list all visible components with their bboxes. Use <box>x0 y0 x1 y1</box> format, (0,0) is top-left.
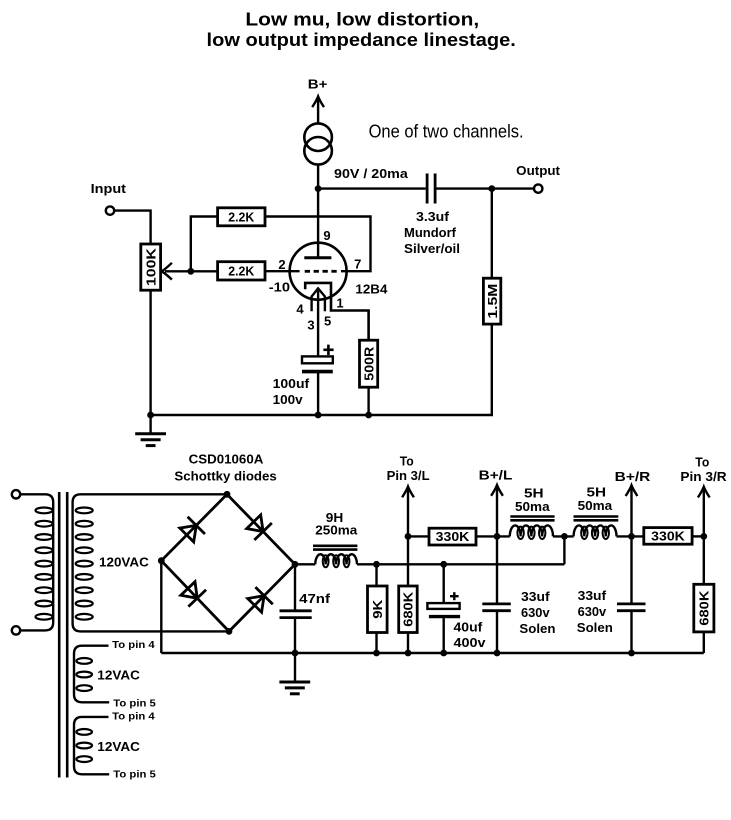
choke L1 9H 250ma <box>315 554 357 564</box>
node wiper junction <box>187 268 194 275</box>
node 9K top <box>373 561 380 568</box>
svg-text:To pin 5: To pin 5 <box>113 698 156 709</box>
svg-text:12VAC: 12VAC <box>97 667 140 682</box>
tube grid (dotted) <box>305 270 337 273</box>
svg-text:2: 2 <box>278 257 285 272</box>
choke L3 5H 50ma <box>574 525 617 536</box>
node Pin3/R <box>700 533 707 540</box>
resistor R5 500R <box>360 340 378 387</box>
node inter-choke <box>561 533 568 540</box>
svg-text:Schottky diodes: Schottky diodes <box>174 468 276 483</box>
terminal Output <box>534 184 542 192</box>
svg-text:CSD01060A: CSD01060A <box>189 451 264 466</box>
svg-text:100v: 100v <box>273 392 304 407</box>
wiper arrow <box>162 263 172 280</box>
ground rail <box>161 652 704 655</box>
svg-text:33uf: 33uf <box>521 589 550 604</box>
tube U1 12B4 envelope <box>290 243 347 300</box>
transformer HV secondary winding <box>73 494 229 631</box>
diode D4 <box>255 587 272 604</box>
resistor R8 680K left <box>399 586 418 633</box>
wire input to pot <box>115 211 151 244</box>
choke L2 core <box>510 515 554 518</box>
svg-text:630v: 630v <box>578 604 607 619</box>
resistor R3 2.2K lower <box>218 262 265 280</box>
svg-text:1.5M: 1.5M <box>485 284 500 319</box>
diode D1 <box>188 517 205 534</box>
svg-text:low output impedance linestage: low output impedance linestage. <box>207 30 516 50</box>
wire pin 3 down to cap <box>317 290 319 357</box>
svg-text:680K: 680K <box>697 590 712 626</box>
wire grid right to feedback <box>265 217 371 272</box>
wire bridge minus down to ground rail <box>160 561 162 653</box>
svg-text:Silver/oil: Silver/oil <box>404 241 460 256</box>
svg-text:To: To <box>695 455 709 470</box>
choke L3 core <box>574 515 619 518</box>
wire 2.2K upper left + down to wiper node <box>191 217 218 272</box>
svg-text:5: 5 <box>324 314 331 329</box>
resistor R7 9K <box>375 564 377 586</box>
resistor R6 330K left <box>429 528 476 545</box>
svg-text:Solen: Solen <box>577 620 613 635</box>
current source CCS (two overlapping circles) <box>304 123 332 151</box>
wire bridge plus to choke <box>295 563 315 565</box>
svg-text:Pin 3/L: Pin 3/L <box>387 468 430 483</box>
svg-text:90V / 20ma: 90V / 20ma <box>334 166 409 181</box>
svg-text:12VAC: 12VAC <box>97 739 140 754</box>
arrow To Pin 3/R <box>703 488 705 536</box>
svg-text:50ma: 50ma <box>515 499 550 514</box>
transformer primary terminal bottom <box>12 626 20 634</box>
transformer heater winding 2 <box>74 717 109 774</box>
svg-text:680K: 680K <box>401 591 416 627</box>
wire plate node to coupling cap <box>318 187 426 189</box>
tube plate <box>304 256 331 259</box>
svg-text:To pin 4: To pin 4 <box>112 712 155 723</box>
B+ arrow <box>317 98 319 124</box>
svg-text:2.2K: 2.2K <box>228 263 255 278</box>
wire to ground <box>294 653 296 682</box>
capacitor C2 100uf polarized <box>302 356 333 363</box>
wire 500R to rail <box>367 387 369 415</box>
svg-text:33uf: 33uf <box>578 588 607 603</box>
plus sign <box>323 348 333 351</box>
svg-text:Input: Input <box>91 181 127 196</box>
choke L1 core <box>313 544 357 547</box>
node B+/R <box>628 533 635 540</box>
node plate junction <box>315 185 322 192</box>
capacitor C3 47nf <box>294 564 296 610</box>
wire 1.5M to bottom rail <box>151 324 492 415</box>
svg-text:50ma: 50ma <box>578 498 613 513</box>
wire CCS to plate node <box>317 165 319 189</box>
resistor R9 330K right <box>644 528 692 545</box>
svg-text:Pin 3/R: Pin 3/R <box>680 469 727 484</box>
wire output node down to 1.5M <box>491 189 493 279</box>
bridge edge wire <box>227 494 295 564</box>
node B+/L <box>494 533 501 540</box>
arrow B+/R <box>630 487 632 537</box>
resistor R10 680K right <box>703 536 705 584</box>
node 40uf top <box>440 561 447 568</box>
node ground rail / 47nf <box>292 650 299 657</box>
resistor R4 1.5M <box>483 278 500 324</box>
transformer primary winding <box>21 494 53 630</box>
svg-text:Mundorf: Mundorf <box>404 225 457 240</box>
svg-text:3.3uf: 3.3uf <box>416 209 450 224</box>
choke L2 5H 50ma <box>510 525 553 536</box>
svg-text:B+/R: B+/R <box>615 469 651 484</box>
svg-text:12B4: 12B4 <box>355 282 388 297</box>
wire wiper to pot <box>165 270 191 272</box>
svg-text:Low mu, low distortion,: Low mu, low distortion, <box>245 9 479 29</box>
svg-text:7: 7 <box>354 257 361 272</box>
svg-text:To: To <box>400 453 414 468</box>
capacitor C4 40uf polarized <box>443 564 445 603</box>
svg-text:250ma: 250ma <box>315 522 358 537</box>
svg-text:Output: Output <box>516 163 560 178</box>
ground <box>279 681 310 684</box>
wire to ground <box>149 415 151 434</box>
svg-text:Solen: Solen <box>519 621 555 636</box>
svg-text:400v: 400v <box>454 635 487 650</box>
svg-text:4: 4 <box>296 302 304 317</box>
svg-text:120VAC: 120VAC <box>99 555 149 570</box>
bridge nodes <box>224 491 231 498</box>
svg-text:-10: -10 <box>269 279 290 294</box>
wire grid left <box>265 270 300 272</box>
svg-text:40uf: 40uf <box>454 620 484 635</box>
svg-text:2.2K: 2.2K <box>228 209 255 224</box>
wire plate node down to plate <box>317 189 319 258</box>
wire rail up to inter-choke node <box>563 536 565 564</box>
node Pin3/L <box>405 533 412 540</box>
transformer T1 primary terminal top <box>12 490 20 498</box>
diode D3 <box>188 590 206 607</box>
diode D2 <box>254 523 272 540</box>
svg-text:To pin 5: To pin 5 <box>113 770 156 781</box>
svg-text:1: 1 <box>336 296 343 311</box>
svg-text:9K: 9K <box>370 599 385 619</box>
svg-text:B+: B+ <box>308 77 328 92</box>
svg-text:To pin 4: To pin 4 <box>112 640 155 651</box>
svg-text:9: 9 <box>323 228 330 243</box>
tube cathode bracket and pin 1 wire <box>305 283 368 340</box>
wire cap to rail <box>317 372 319 415</box>
wire choke output rail <box>357 563 564 565</box>
svg-text:One of two channels.: One of two channels. <box>369 121 524 141</box>
wire Pin3/L node down to 680K <box>407 536 409 586</box>
arrow To Pin 3/L <box>407 488 409 536</box>
node output junction <box>488 185 495 192</box>
svg-text:500R: 500R <box>361 346 376 381</box>
svg-text:330K: 330K <box>436 529 470 544</box>
svg-text:B+/L: B+/L <box>479 467 513 482</box>
plus sign <box>450 595 459 597</box>
capacitor C6 33uf right <box>630 536 632 602</box>
wire 680K right bottom corner <box>703 632 705 653</box>
wire pot bottom to ground rail <box>149 290 151 415</box>
svg-text:47nf: 47nf <box>299 591 331 606</box>
capacitor C5 33uf left <box>496 536 498 602</box>
svg-text:3: 3 <box>307 318 314 333</box>
bridge edge wire <box>229 564 295 631</box>
ground <box>135 432 166 435</box>
svg-text:100K: 100K <box>143 247 158 286</box>
wire coupling cap to output <box>436 187 533 189</box>
resistor R2 2.2K upper <box>218 208 265 226</box>
capacitor C1 3.3uf coupling <box>426 174 429 204</box>
bridge edge wire <box>161 494 227 560</box>
node ground junction <box>147 412 154 419</box>
transformer core <box>58 492 61 778</box>
svg-text:330K: 330K <box>651 528 685 543</box>
wire B+ rail segments <box>408 535 429 537</box>
bridge edge wire <box>161 561 229 632</box>
potentiometer R1 100K <box>141 244 161 290</box>
tube heater arrow <box>312 288 325 311</box>
arrow B+/L <box>496 487 498 537</box>
transformer heater winding 1 <box>74 646 109 703</box>
svg-text:630v: 630v <box>521 605 550 620</box>
svg-text:100uf: 100uf <box>273 376 310 391</box>
